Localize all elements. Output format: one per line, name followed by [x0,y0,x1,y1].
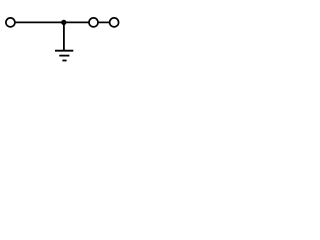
terminal T3 (right open-circle contact) [110,18,119,27]
node A (junction dot) [61,20,66,25]
terminal T2 (middle open-circle contact) [89,18,98,27]
wire (junction down to ground) [63,22,65,50]
terminal T1 (left open-circle contact) [6,18,15,27]
wire (left contact to junction and on to middle contact) [15,21,89,23]
ground (PE earth symbol, 3 bars) [55,51,73,61]
wire (between T2 and T3) [98,21,110,23]
